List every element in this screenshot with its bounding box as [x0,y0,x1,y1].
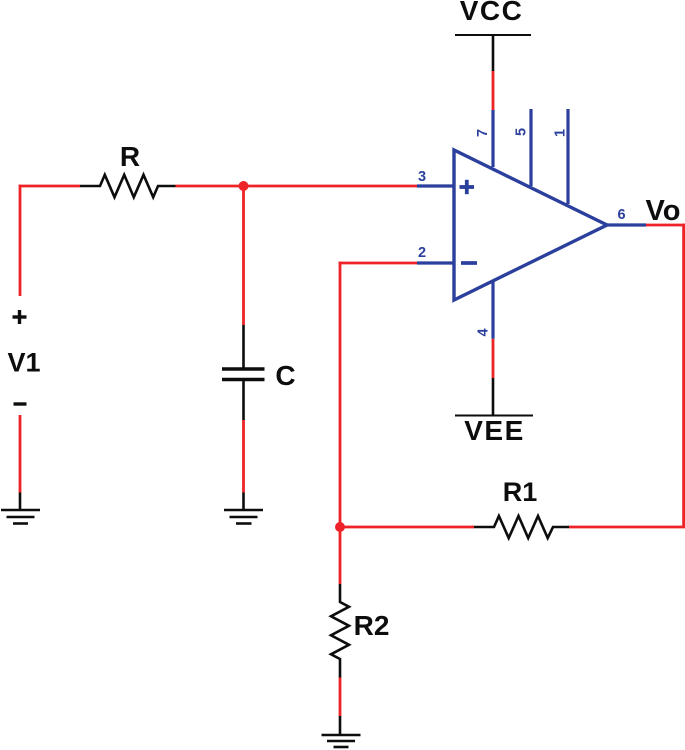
wire V1 upper vertical (red) [19,185,22,296]
VCC power rail [455,34,531,36]
wire R2 to ground (red) [339,678,342,717]
pin 4 stub [491,282,494,339]
wire V1 to ground (black) [19,493,22,511]
wire junction to R1 (red) [340,526,474,529]
wire V1 lower vertical (red) [19,415,22,493]
junction node at R/C [239,181,249,191]
wire junction to R2 (red) [339,527,342,584]
svg-text:R2: R2 [354,610,390,641]
pin 6 stub [605,223,646,226]
svg-text:7: 7 [475,129,491,137]
pin 7 stub [491,110,494,167]
wire R1 to output vertical (red) [569,526,685,529]
svg-text:3: 3 [418,169,426,185]
wire VCC rail to pin 7 (black segment) [492,35,495,71]
svg-text:2: 2 [418,245,426,261]
svg-text:V1: V1 [7,348,40,378]
wire capacitor top lead (black) [242,325,245,368]
V1 plus polarity mark [13,310,27,324]
wire junction to capacitor (red) [242,186,245,325]
pin 5 stub [529,109,532,186]
svg-text:5: 5 [514,128,530,136]
VEE power rail [455,415,533,417]
op-amp U1 body [454,150,607,300]
op-amp U1 inverting input marker - [461,261,477,265]
resistor R [80,175,176,197]
wire output stub pin6 to Vo (red) [646,224,685,227]
pin 3 stub [417,184,454,187]
pin 2 stub [417,261,454,264]
wire output right vertical (red) [682,224,685,527]
wire capacitor to ground (red) [242,420,245,493]
capacitor C [222,369,265,380]
svg-text:4: 4 [476,328,492,336]
ground (V1) [1,510,40,524]
wire input top horizontal left of R (red) [19,185,80,188]
svg-text:1: 1 [553,129,569,137]
svg-text:VEE: VEE [464,415,525,446]
svg-text:Vo: Vo [646,195,681,227]
svg-text:VCC: VCC [460,0,524,26]
wire capacitor bottom lead (black) [242,381,245,420]
resistor R2 [331,584,349,678]
wire VCC to pin 7 (red segment) [492,71,495,110]
svg-text:C: C [275,360,295,391]
svg-text:R1: R1 [503,477,538,507]
ground (C) [224,510,263,524]
wire pin4 to VEE (black segment) [492,378,495,415]
wire capacitor ground stub (black) [242,493,245,511]
resistor R1 [474,516,569,538]
wire input top horizontal R to pin 3 (red) [176,185,418,188]
ground (R2) [322,735,361,747]
svg-text:6: 6 [617,207,625,223]
wire feedback vertical (red) [339,262,342,527]
svg-text:R: R [120,141,140,172]
pin 1 stub [566,109,569,204]
V1 minus polarity mark [14,402,27,405]
wire pin 2 horizontal (red) [339,262,417,265]
op-amp U1 non-inverting input marker + [460,180,475,194]
junction node at R1/R2 [335,522,345,532]
wire pin4 to VEE (red segment) [492,339,495,378]
wire R2 ground stub (black) [339,716,342,735]
